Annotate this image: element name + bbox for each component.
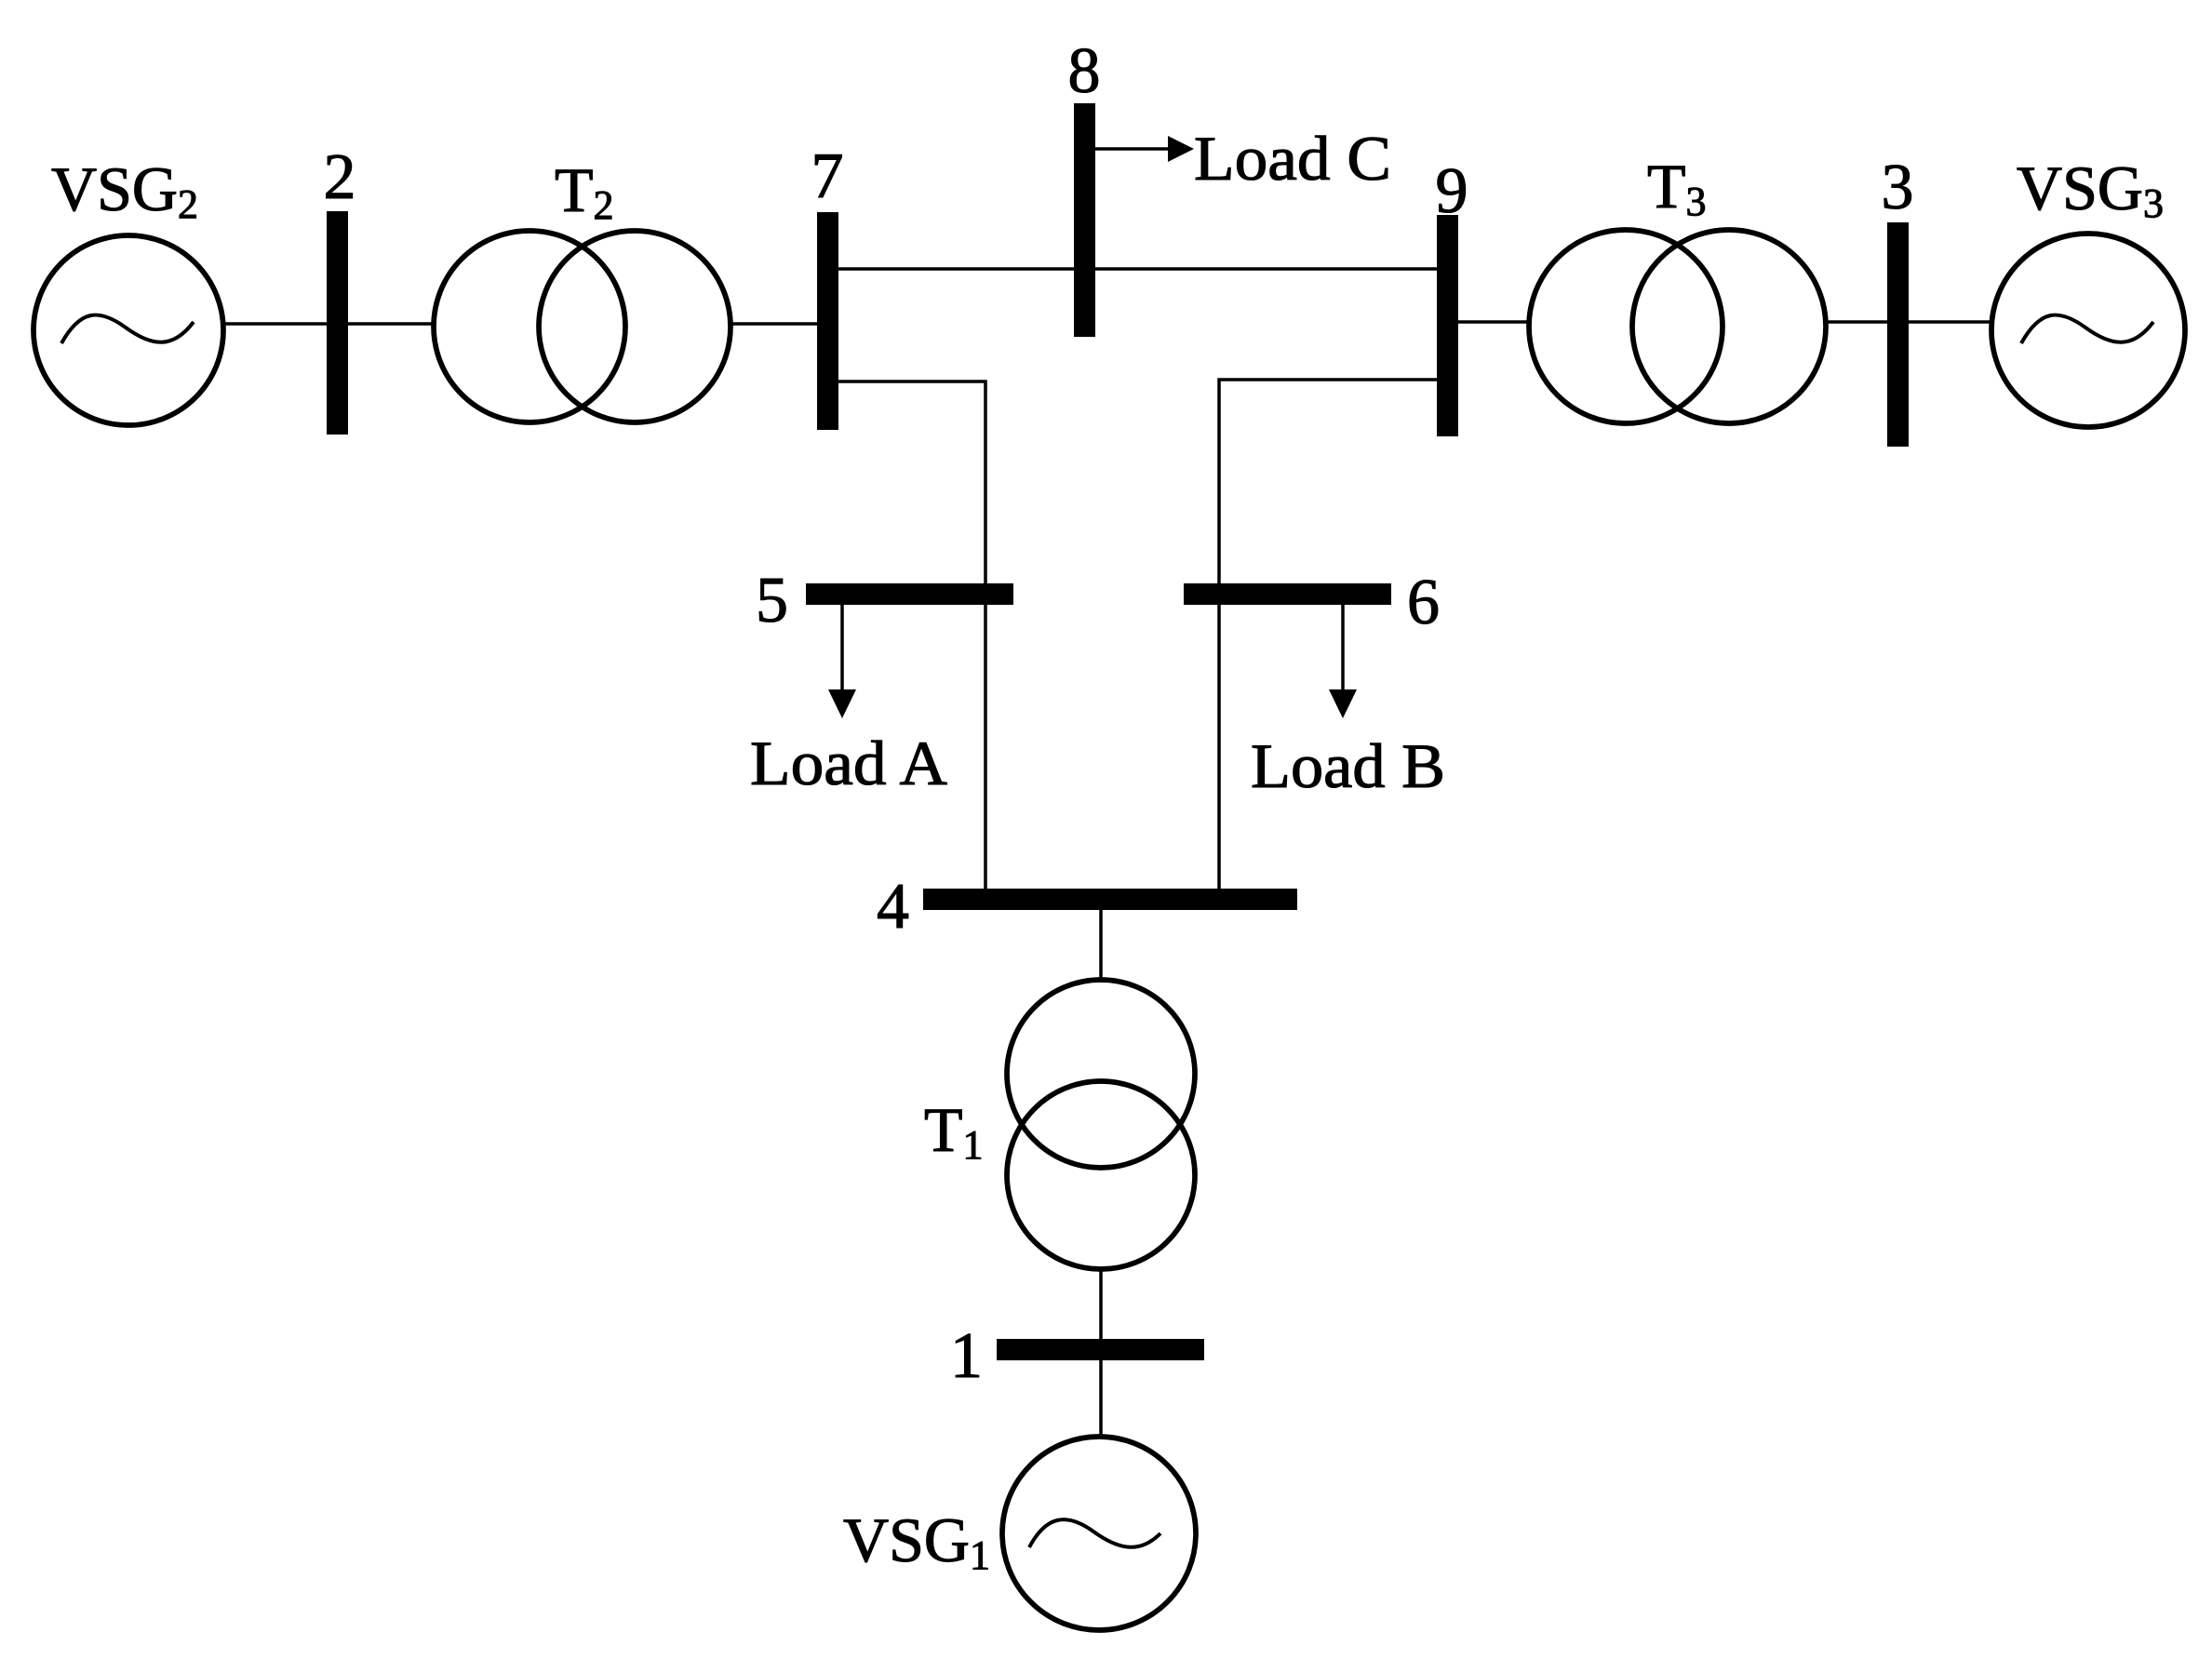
svg-text:8: 8: [1068, 35, 1101, 107]
transformer T3: [1529, 230, 1826, 423]
svg-text:Load A: Load A: [750, 728, 947, 798]
bus 5: [806, 583, 1013, 605]
svg-text:7: 7: [811, 140, 844, 212]
svg-text:5: 5: [756, 565, 788, 636]
bus 2: [327, 211, 348, 435]
bus 3: [1887, 222, 1909, 447]
svg-text:VSG3: VSG3: [2017, 153, 2164, 226]
svg-text:4: 4: [877, 871, 909, 943]
svg-text:VSG2: VSG2: [51, 154, 198, 227]
wire bus 7 to bus 9 through bus 8: [838, 267, 1437, 271]
svg-text:VSG1: VSG1: [843, 1505, 990, 1578]
bus 7: [817, 212, 838, 430]
transformer T2: [434, 231, 731, 422]
wire bus 3 to VSG3: [1909, 320, 1991, 324]
wire bus 1 to VSG1: [1099, 1360, 1103, 1438]
wire bus 9 to T3: [1458, 320, 1531, 324]
wire bus 9 down-branch to node 6 drop: [1219, 380, 1437, 889]
wire T3 to bus 3: [1826, 320, 1887, 324]
svg-text:Load C: Load C: [1194, 123, 1391, 194]
bus 4: [923, 889, 1297, 910]
generator VSG1: [1002, 1437, 1196, 1630]
svg-text:2: 2: [324, 141, 356, 213]
wire T2 to bus 7: [731, 322, 817, 326]
svg-text:9: 9: [1436, 155, 1468, 227]
wire T1 to bus 1: [1099, 1269, 1103, 1339]
load B arrow: [1329, 605, 1357, 718]
bus 1: [997, 1339, 1204, 1360]
bus 6: [1184, 583, 1391, 605]
bus 9: [1437, 215, 1458, 436]
load A arrow: [828, 605, 856, 718]
generator VSG3: [1991, 234, 2185, 427]
svg-text:6: 6: [1407, 567, 1440, 638]
svg-text:Load B: Load B: [1251, 730, 1445, 801]
svg-text:3: 3: [1882, 152, 1914, 223]
bus 8: [1074, 103, 1095, 337]
load C arrow: [1095, 136, 1194, 162]
wire bus 4 to T1: [1099, 910, 1103, 980]
transformer T1: [1007, 980, 1195, 1269]
wire bus 7 down-branch to node 5 drop: [838, 381, 985, 889]
wire VSG2 to T2: [223, 322, 435, 326]
generator VSG2: [34, 235, 223, 425]
svg-text:1: 1: [950, 1320, 983, 1392]
